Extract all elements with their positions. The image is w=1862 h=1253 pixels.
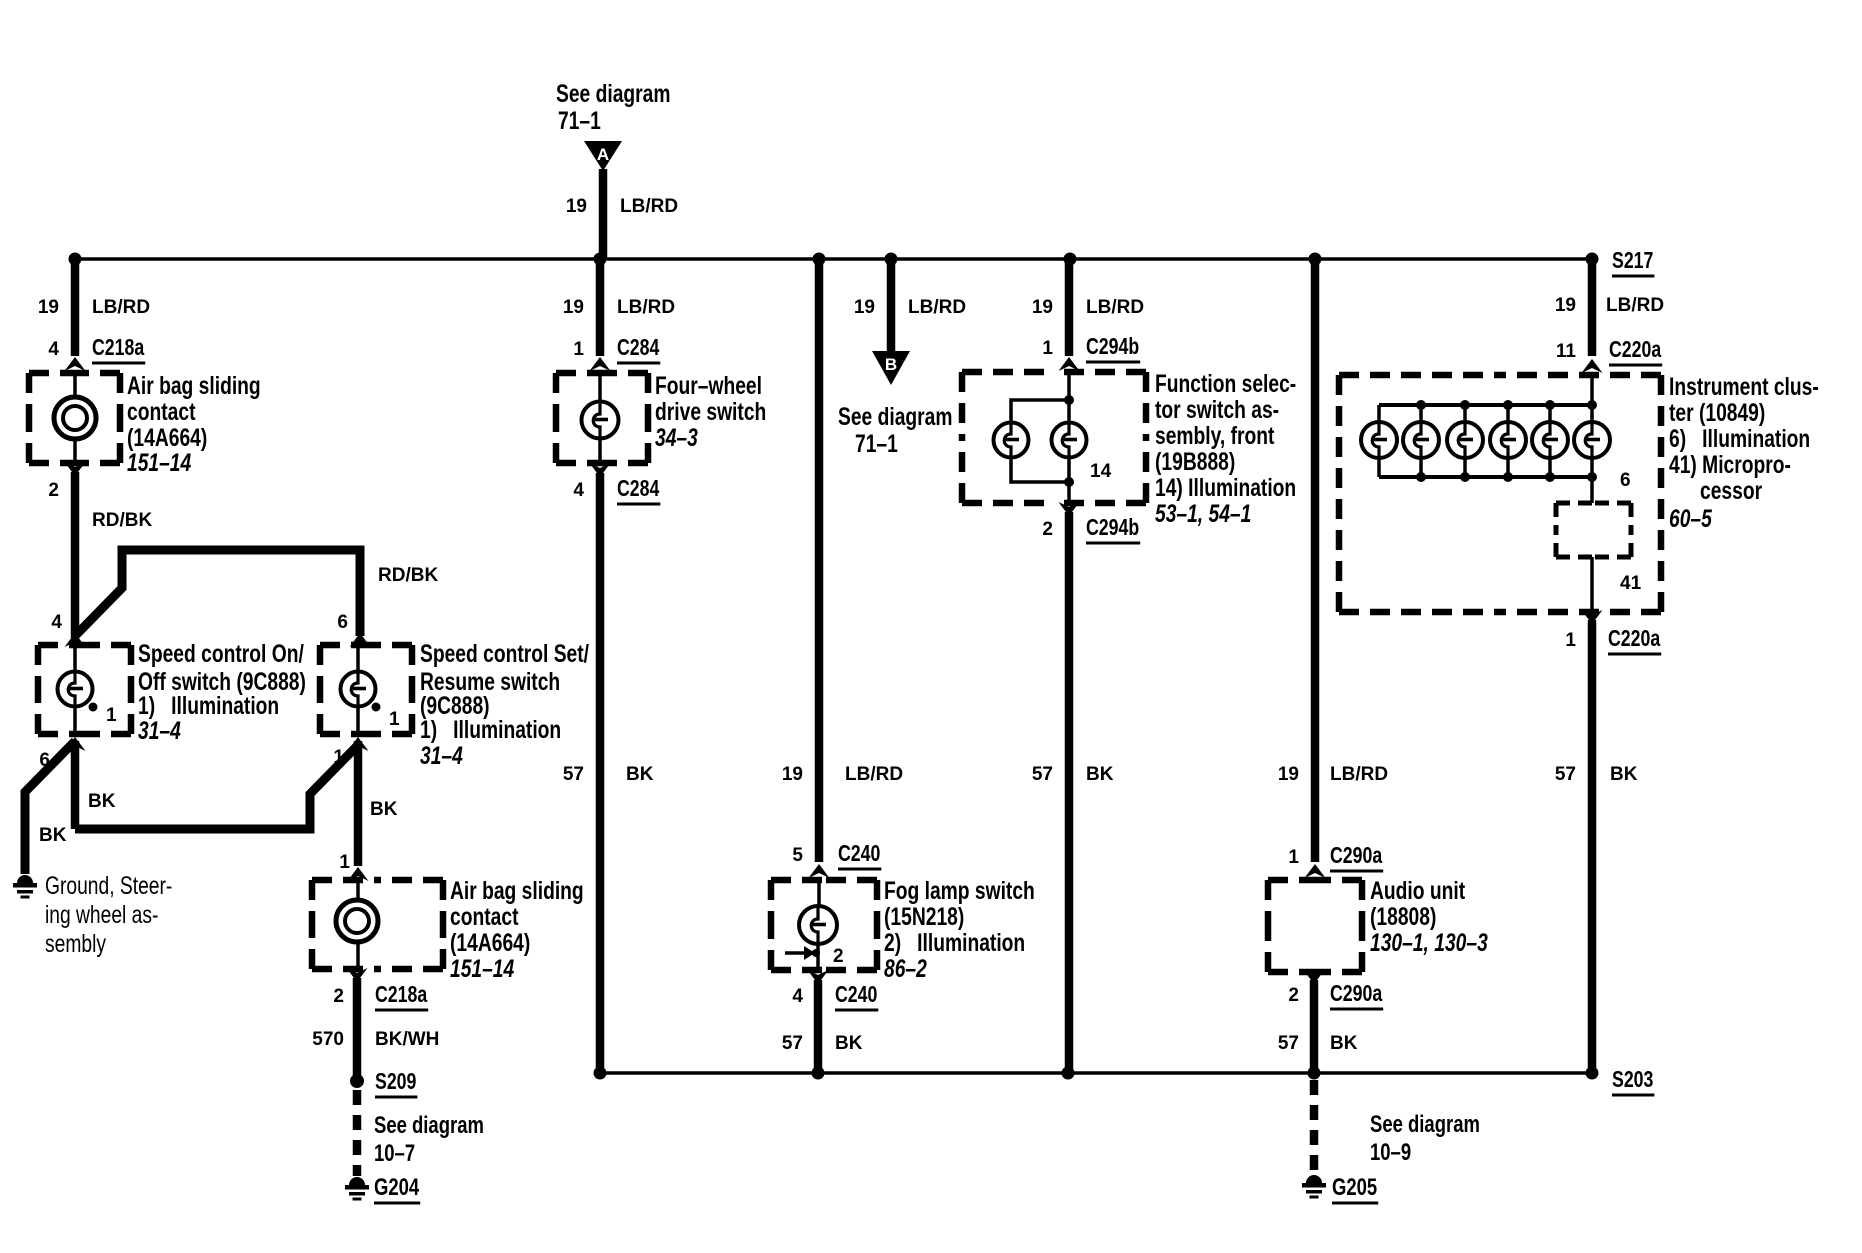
junction node on top bus at fog lamp column [813,253,826,266]
wire BK bottom jog to set/resume pin 1 [75,747,356,829]
svg-text:1: 1 [1288,847,1299,868]
svg-text:2: 2 [333,986,344,1007]
cluster illumination lamp 4 stub bottom [1506,456,1510,477]
svg-text:C290a: C290a [1330,980,1382,1006]
svg-text:G205: G205 [1332,1174,1377,1201]
cluster illumination lamp 6 stub bottom [1590,456,1594,477]
svg-text:LB/RD: LB/RD [620,196,678,217]
svg-text:1: 1 [333,747,344,768]
cluster illumination lamp 3 stub top [1463,405,1467,424]
clockspring coil symbol (upper airbag contact) [54,397,96,439]
svg-text:C290a: C290a [1330,842,1382,868]
svg-text:Function selec-: Function selec- [1155,370,1296,398]
wire from lamp bank to microprocessor [1590,477,1594,503]
wire 19 LB/RD bus to four-wheel drive switch [596,259,605,356]
svg-text:2: 2 [1288,985,1299,1006]
wire RD/BK jog to set/resume switch pin 6 [75,550,360,636]
wire 57 BK to bottom bus (cluster column) [1588,620,1597,1073]
svg-text:2: 2 [1042,519,1053,540]
svg-text:1: 1 [1565,630,1576,651]
wire BK from on/off pin 6 down to jog [71,741,80,829]
ground symbol - steering wheel assembly [13,875,37,899]
pin arrow out of C284 pin 4 [590,463,611,477]
svg-text:11: 11 [1556,341,1577,362]
wire 19 LB/RD bus to function selector [1065,259,1074,356]
wire inside set/resume switch (bottom stub) [356,706,360,734]
svg-text:(15N218): (15N218) [884,903,964,931]
svg-text:C294b: C294b [1086,514,1139,540]
svg-text:31–4: 31–4 [420,742,463,770]
wire inside lower airbag contact (top stub) [356,880,360,901]
junction node on top bus at function selector column [1064,253,1077,266]
svg-text:19: 19 [854,297,875,318]
lamp pointer dot (on/off switch) [89,703,98,712]
svg-text:1) Illumination: 1) Illumination [420,716,561,744]
svg-text:2) Illumination: 2) Illumination [884,929,1025,957]
cluster illumination lamp 1 stub bottom [1377,456,1381,477]
pin arrow out of C220a pin 1 [1582,610,1603,624]
pin arrow into C294b pin 1 [1059,357,1080,371]
junction node bottom bus four-wheel column [594,1067,607,1080]
svg-text:57: 57 [1278,1033,1299,1054]
wire BK to steering wheel ground [25,741,75,874]
svg-text:BK: BK [39,825,67,846]
svg-text:Fog lamp switch: Fog lamp switch [884,877,1035,905]
svg-text:53–1, 54–1: 53–1, 54–1 [1155,500,1251,528]
wire inside fog lamp switch (bottom stub) [816,944,820,970]
four-wheel drive switch - dashed box [556,373,648,463]
svg-text:Speed control Set/: Speed control Set/ [420,640,589,668]
junction node top bar [1460,400,1470,410]
junction node on top bus at audio column [1309,253,1322,266]
junction node top bar [1587,400,1597,410]
pin arrow into set/resume pin 6 [350,633,371,647]
svg-text:1: 1 [389,709,400,730]
svg-text:4: 4 [51,612,62,633]
function selector switch assembly - dashed box [962,372,1146,503]
wire 57 BK to bottom bus (audio column) [1310,980,1319,1078]
svg-text:130–1, 130–3: 130–1, 130–3 [1370,929,1488,957]
svg-text:60–5: 60–5 [1669,505,1713,533]
svg-text:57: 57 [1555,764,1576,785]
pin arrow out of C290a pin 2 [1304,970,1325,984]
svg-text:19: 19 [782,764,803,785]
svg-text:6: 6 [1620,470,1631,491]
lamp pointer dot (set/resume switch) [372,703,381,712]
svg-text:S203: S203 [1612,1066,1653,1092]
dashed wire from bus to ground G205 [1310,1080,1319,1174]
svg-text:RD/BK: RD/BK [378,565,438,586]
illumination lamp (on/off switch) [58,672,93,707]
svg-text:BK: BK [1330,1033,1358,1054]
junction node top bar [1416,400,1426,410]
wire 57 BK to bottom bus (function selector column) [1065,512,1074,1073]
cluster illumination lamp 3 [1447,422,1483,458]
svg-text:151–14: 151–14 [127,449,191,477]
wire loop left branch to first lamp [1011,400,1069,424]
svg-text:LB/RD: LB/RD [1606,295,1664,316]
svg-text:6: 6 [337,612,348,633]
clockspring coil symbol (lower airbag contact) [336,900,378,942]
svg-text:2: 2 [833,946,844,967]
pin arrow into C240 pin 5 [809,864,830,878]
svg-text:RD/BK: RD/BK [92,510,152,531]
wire 19 LB/RD bus to fog lamp switch [815,259,824,862]
svg-text:BK: BK [835,1033,863,1054]
svg-text:4: 4 [573,480,584,501]
svg-text:151–14: 151–14 [450,955,514,983]
pin arrow out of C218a pin 2 [65,462,86,476]
pin arrow into lower airbag contact pin 1 [348,867,369,881]
svg-text:1: 1 [339,852,350,873]
svg-text:19: 19 [1278,764,1299,785]
svg-text:86–2: 86–2 [884,955,927,983]
svg-text:14) Illumination: 14) Illumination [1155,474,1296,502]
cluster lamp bank top bar [1379,403,1592,407]
wire 570 BK/WH down to splice S209 [353,978,362,1078]
ground symbol G205 [1302,1175,1326,1199]
air bag sliding contact (14A664) lower - dashed box [312,880,443,969]
illumination lamp 1 (function selector) [994,423,1029,458]
svg-text:contact: contact [127,398,196,426]
svg-text:S209: S209 [375,1068,416,1094]
svg-text:ter (10849): ter (10849) [1669,399,1765,427]
svg-text:BK: BK [88,791,116,812]
wire BK set/resume pin1 down to lower airbag contact [354,741,363,866]
cluster illumination lamp 6 stub top [1590,405,1594,424]
svg-text:BK/WH: BK/WH [375,1029,439,1050]
svg-text:(14A664): (14A664) [450,929,530,957]
svg-text:34–3: 34–3 [655,424,698,452]
svg-text:ing wheel as-: ing wheel as- [45,901,158,929]
illumination lamp 2 (function selector) [1052,423,1087,458]
svg-text:B: B [885,355,897,374]
cluster illumination lamp 2 [1403,422,1439,458]
svg-text:4: 4 [792,986,803,1007]
cluster illumination lamp 2 stub top [1419,405,1423,424]
svg-text:See diagram: See diagram [838,403,953,431]
junction node bottom bar [1503,472,1513,482]
microprocessor - small dashed box [1556,503,1631,557]
cluster illumination lamp 5 stub top [1548,405,1552,424]
svg-text:1: 1 [573,339,584,360]
svg-text:57: 57 [782,1033,803,1054]
pin arrow at set/resume pin 1 (bottom) [348,737,369,751]
ground symbol G204 [345,1177,369,1201]
svg-text:10–7: 10–7 [374,1140,415,1167]
junction node S203 at cluster column [1586,1067,1599,1080]
svg-text:570: 570 [312,1029,344,1050]
wire 19 LB/RD from arrow A to bus [599,169,608,259]
dashed wire from S209 to ground G204 [353,1090,362,1176]
pin arrow into C290a pin 1 [1305,864,1326,878]
junction node S217 at instrument cluster column [1586,253,1599,266]
svg-text:S217: S217 [1612,247,1653,273]
top bus wire S217 [75,257,1592,261]
svg-text:Instrument clus-: Instrument clus- [1669,373,1819,401]
pin arrow at on/off pin 6 (bottom) [65,737,86,751]
wire inside on/off switch (bottom stub) [73,706,77,734]
svg-text:5: 5 [792,845,803,866]
svg-text:19: 19 [38,297,59,318]
svg-text:cessor: cessor [1700,477,1762,505]
svg-text:6) Illumination: 6) Illumination [1669,425,1810,453]
svg-text:C240: C240 [835,981,877,1007]
cluster illumination lamp 4 [1490,422,1526,458]
pin arrow out of C294b pin 2 [1059,502,1080,516]
cluster illumination lamp 2 stub bottom [1419,456,1423,477]
svg-text:71–1: 71–1 [855,430,898,458]
instrument cluster (10849) - dashed box [1339,375,1661,612]
illumination lamp (fog lamp switch) [799,906,837,944]
wire inside set/resume switch (top stub) [356,645,360,672]
svg-text:LB/RD: LB/RD [92,297,150,318]
svg-text:See diagram: See diagram [374,1112,484,1139]
wire inside function selector (bottom stub) [1067,482,1071,503]
svg-text:C220a: C220a [1609,336,1661,362]
junction node bottom bar [1416,472,1426,482]
wire 19 LB/RD bus to audio unit [1311,259,1320,862]
junction node bottom bus audio column [1308,1067,1321,1080]
wire 19 LB/RD bus to airbag contact C218a [71,259,80,356]
wire right branch bottom [1067,456,1071,482]
splice node S209 [350,1074,364,1088]
air bag sliding contact (14A664) upper - dashed box [29,373,120,463]
svg-text:19: 19 [1555,295,1576,316]
wire inside fog lamp switch (top stub) [817,880,821,907]
svg-text:C218a: C218a [375,981,427,1007]
svg-text:19: 19 [566,196,587,217]
cluster illumination lamp 6 [1574,422,1610,458]
pin arrow out of lower airbag pin 2 [347,968,368,982]
fog lamp switch (15N218) - dashed box [771,880,877,970]
wire loop bottom left [1011,456,1069,482]
svg-text:BK: BK [1610,764,1638,785]
svg-text:Air bag sliding: Air bag sliding [450,877,584,905]
svg-text:(18808): (18808) [1370,903,1436,931]
svg-text:1) Illumination: 1) Illumination [138,692,279,720]
svg-text:(19B888): (19B888) [1155,448,1235,476]
illumination lamp (set/resume switch) [341,672,376,707]
svg-text:19: 19 [1032,297,1053,318]
speed control set/resume switch (9C888) - dashed box [320,645,412,734]
wire inside upper airbag contact (bottom stub) [73,437,77,463]
junction node top bar [1545,400,1555,410]
svg-text:C240: C240 [838,840,880,866]
svg-text:A: A [597,145,609,164]
svg-text:4: 4 [48,339,59,360]
junction node bottom bar [1587,472,1597,482]
wire inside function selector (top stub) [1067,372,1071,400]
wire 19 LB/RD bus to arrow B [887,259,896,353]
svg-text:G204: G204 [374,1174,420,1201]
cluster illumination lamp 3 stub bottom [1463,456,1467,477]
svg-text:drive switch: drive switch [655,398,766,426]
svg-text:sembly, front: sembly, front [1155,422,1275,450]
junction node bottom of lamp pair [1064,477,1074,487]
wire inside four-wheel drive switch (top stub) [598,373,602,402]
svg-text:C284: C284 [617,334,659,360]
junction node top of lamp pair [1064,395,1074,405]
junction node bottom bar [1460,472,1470,482]
wire right branch to second lamp [1067,400,1071,424]
svg-text:LB/RD: LB/RD [908,297,966,318]
cluster illumination lamp 4 stub top [1506,405,1510,424]
junction node top bar [1503,400,1513,410]
svg-text:10–9: 10–9 [1370,1139,1411,1166]
svg-text:57: 57 [563,764,584,785]
svg-text:See diagram: See diagram [1370,1111,1480,1138]
wire inside cluster from pin 11 [1590,375,1594,405]
wire 57 BK down to bottom bus (four-wheel column) [596,473,605,1073]
svg-text:contact: contact [450,903,519,931]
speed control on/off switch (9C888) - dashed box [38,645,131,734]
svg-text:14: 14 [1090,461,1112,482]
cluster illumination lamp 1 [1361,422,1397,458]
svg-text:LB/RD: LB/RD [1330,764,1388,785]
svg-text:Ground, Steer-: Ground, Steer- [45,872,172,900]
bottom bus wire S203 [600,1071,1592,1075]
wire 19 LB/RD bus to instrument cluster [1588,259,1597,356]
wire inside lower airbag contact (bottom stub) [356,941,360,969]
svg-text:LB/RD: LB/RD [1086,297,1144,318]
svg-text:41) Micropro-: 41) Micropro- [1669,451,1791,479]
svg-text:BK: BK [370,799,398,820]
wire from microprocessor to pin 1 [1590,557,1594,612]
svg-text:Speed control On/: Speed control On/ [138,640,304,668]
svg-text:Four–wheel: Four–wheel [655,372,762,400]
off-page connector arrow B [872,351,910,385]
junction node bottom bus fog column [812,1067,825,1080]
illumination lamp (four-wheel drive switch) [582,402,619,439]
svg-text:C294b: C294b [1086,333,1139,359]
svg-text:(14A664): (14A664) [127,424,207,452]
svg-text:1: 1 [1042,338,1053,359]
wire 57 BK to bottom bus (fog column) [814,980,823,1073]
svg-text:31–4: 31–4 [138,717,181,745]
svg-text:BK: BK [626,764,654,785]
svg-text:tor switch as-: tor switch as- [1155,396,1279,424]
junction node on top bus at four-wheel column [594,253,607,266]
cluster illumination lamp 5 stub bottom [1548,456,1552,477]
svg-text:C220a: C220a [1608,625,1660,651]
pin arrow into C284 pin 1 [590,357,611,371]
svg-text:1: 1 [106,705,117,726]
pin arrow into C220a pin 11 [1582,359,1603,373]
svg-text:BK: BK [1086,764,1114,785]
pin arrow out of C240 pin 4 [808,970,829,984]
svg-text:LB/RD: LB/RD [845,764,903,785]
svg-text:41: 41 [1620,573,1642,594]
wire inside on/off switch (top stub) [73,645,77,672]
junction node bottom bus function selector column [1062,1067,1075,1080]
svg-text:19: 19 [563,297,584,318]
junction node on top bus at arrow B [885,253,898,266]
svg-text:sembly: sembly [45,930,106,958]
junction node on top bus at airbag column [69,253,82,266]
svg-text:2: 2 [48,480,59,501]
wire inside upper airbag contact (top stub) [73,373,77,399]
svg-text:57: 57 [1032,764,1053,785]
junction node bottom bar [1545,472,1555,482]
switch pointer arrow at pin 2 (fog lamp switch) [785,946,820,960]
cluster lamp bank bottom bar [1379,475,1592,479]
svg-text:Audio unit: Audio unit [1370,877,1466,905]
off-page connector arrow A [584,141,622,171]
svg-text:Air bag sliding: Air bag sliding [127,372,261,400]
svg-text:C218a: C218a [92,334,144,360]
svg-text:LB/RD: LB/RD [617,297,675,318]
wire inside four-wheel drive switch (bottom stub) [598,439,602,463]
cluster illumination lamp 1 stub top [1377,405,1381,424]
svg-text:See diagram: See diagram [556,80,671,108]
pin arrow into C218a pin 4 [65,357,86,371]
svg-text:71–1: 71–1 [558,107,601,135]
audio unit (18808) - dashed box [1268,880,1362,972]
wire 2 RD/BK down from airbag contact [71,472,80,638]
svg-text:C284: C284 [617,475,659,501]
cluster illumination lamp 5 [1532,422,1568,458]
pin arrow into speed control on/off pin 4 [65,633,86,647]
